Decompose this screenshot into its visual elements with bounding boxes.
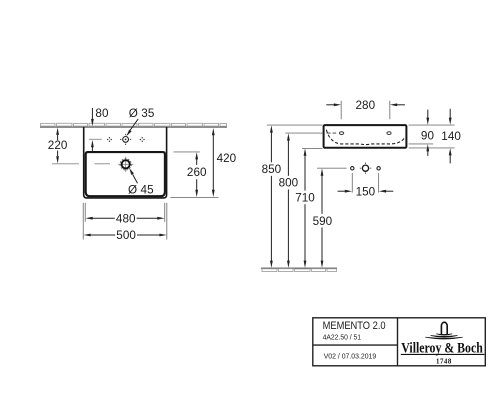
dim 140 arrows: [449, 109, 452, 164]
basin outer rectangle (plan view): [84, 127, 167, 198]
ext line bowl top right: [174, 151, 200, 153]
svg-text:420: 420: [217, 152, 237, 165]
dim 710: [304, 148, 307, 268]
ext line top (850): [267, 124, 323, 126]
svg-text:500: 500: [116, 229, 136, 242]
wall hatch (plan view): [41, 123, 227, 126]
logo underline: [401, 353, 485, 355]
dim 80 upper arrow: [91, 108, 94, 126]
dim 590: [321, 168, 324, 268]
svg-text:150: 150: [356, 185, 376, 198]
drain outer circle (dashed): [120, 159, 131, 170]
right ext lines (90/140): [409, 125, 455, 148]
floor hatch: [262, 269, 337, 272]
svg-text:220: 220: [48, 139, 68, 152]
dim 90 arrows: [426, 110, 429, 156]
dim 80 lower arrow: [91, 140, 94, 152]
ext line 710: [302, 148, 322, 150]
dim 850: [270, 125, 273, 268]
tap hole left (knockout): [107, 137, 112, 142]
dim 420: [212, 128, 215, 197]
svg-text:260: 260: [187, 166, 207, 179]
table frame: [313, 318, 486, 366]
svg-text:4A22.50 / 51: 4A22.50 / 51: [323, 332, 362, 341]
dim 480: [85, 217, 164, 220]
svg-text:140: 140: [441, 130, 461, 143]
tap row left hole: [351, 167, 354, 170]
drain centerline segments: [52, 163, 79, 165]
tap row level line: [317, 167, 347, 169]
tap row right hole: [377, 167, 380, 170]
dim 500: [83, 234, 166, 237]
svg-text:850: 850: [262, 163, 282, 176]
svg-text:1748: 1748: [436, 358, 452, 365]
tap hole middle O35: [120, 134, 131, 145]
ext line 800: [285, 132, 322, 134]
logo ripple 1: [436, 334, 452, 335]
svg-text:480: 480: [116, 212, 136, 225]
dim 220: [56, 128, 59, 164]
svg-text:90: 90: [421, 129, 435, 142]
table horizontal divider: [313, 344, 398, 346]
svg-text:Ø 35: Ø 35: [129, 107, 155, 120]
ext lines bottom left/right (480/500): [83, 203, 167, 240]
O35 leader: [126, 119, 138, 136]
tap row middle hole: [360, 163, 371, 174]
dim 150 arrows: [338, 190, 394, 193]
ext line basin bottom right: [170, 196, 218, 198]
logo ripple 2: [431, 336, 458, 338]
basin bowl (inner rounded rect): [86, 152, 165, 196]
wall line (plan view): [40, 126, 227, 128]
drain crosshair: [118, 163, 133, 165]
svg-text:590: 590: [313, 215, 333, 228]
logo arch: [441, 322, 447, 334]
floor line: [261, 267, 337, 269]
dim 800: [287, 133, 290, 268]
svg-text:Ø 45: Ø 45: [128, 183, 154, 196]
hidden bowl contour (dashed): [326, 130, 405, 145]
drain inner circle O45: [122, 160, 130, 168]
svg-text:MEMENTO 2.0: MEMENTO 2.0: [323, 320, 386, 332]
overflow oval right: [387, 132, 391, 135]
svg-text:800: 800: [279, 177, 299, 190]
svg-text:280: 280: [356, 99, 376, 112]
dim 280 ext lines: [340, 101, 342, 120]
dim 260: [195, 152, 198, 197]
svg-text:710: 710: [295, 191, 315, 204]
dim 280 arrows: [326, 103, 405, 106]
overflow oval left: [340, 132, 344, 135]
oval centerline dash: [327, 132, 337, 134]
tap hole right (knockout): [140, 137, 145, 142]
O45 leader: [129, 168, 137, 183]
svg-text:V02 / 07.03.2019: V02 / 07.03.2019: [324, 352, 377, 361]
dim 150 ext lines: [351, 173, 353, 193]
svg-text:80: 80: [95, 107, 109, 120]
basin profile rect: [324, 125, 407, 148]
table vertical divider: [397, 318, 399, 366]
tap hole centerline: [89, 138, 102, 140]
logo ripple 3: [425, 337, 463, 339]
